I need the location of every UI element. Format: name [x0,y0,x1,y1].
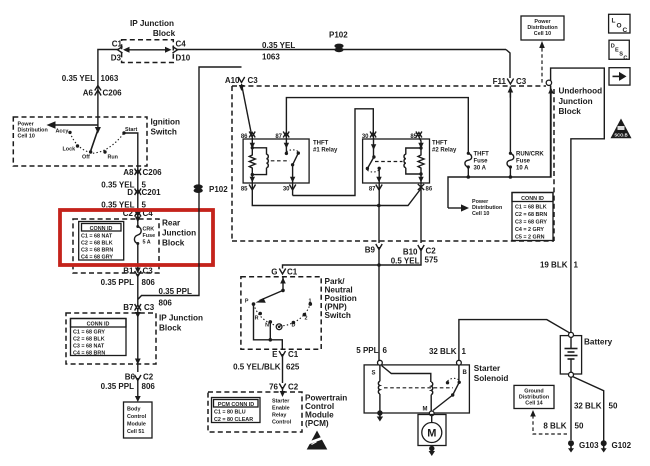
starter solenoid box [364,364,508,413]
svg-text:C1 = 68 GRY: C1 = 68 GRY [73,330,105,336]
svg-text:Lock: Lock [63,147,76,153]
svg-text:575: 575 [425,256,439,265]
PNP detent arc (dotted) [254,304,311,326]
connector D C201 [127,188,161,197]
PNP neutral contact (circled) [276,324,282,330]
svg-text:C2: C2 [426,247,437,256]
starter motor ground [429,446,435,457]
connector G C1 (PNP switch) [271,268,298,277]
svg-text:806: 806 [142,382,156,391]
relay 1 pin 87 [275,132,289,154]
svg-text:P102: P102 [209,185,228,194]
wire battery positive to solenoid B (32 BLK 1) [459,320,570,361]
svg-text:Switch: Switch [325,311,351,320]
svg-text:86: 86 [426,187,433,193]
svg-text:Junction: Junction [559,97,593,106]
label 0.35 PPL 806 (B6) [101,382,156,391]
connector C4 (IP JB top right) [173,40,187,54]
svg-text:87: 87 [275,134,282,140]
THFT fuse 30A [465,152,489,178]
arrow into IP junction block [135,309,141,318]
CRK fuse 5A (in rear junction block) [134,219,155,269]
svg-text:Cell 10: Cell 10 [18,134,35,140]
wire B9 splice to PNP switch G C1 [283,265,380,269]
solenoid M terminal [423,407,435,416]
svg-text:625: 625 [286,363,300,372]
PNP position 1 [309,299,313,306]
svg-text:30 A: 30 A [474,166,487,172]
svg-text:1: 1 [462,347,467,356]
svg-text:C3: C3 [143,267,154,276]
svg-text:1063: 1063 [262,53,280,62]
svg-text:Rear: Rear [162,219,181,228]
ignition switch detent arc (dotted) [70,132,124,153]
solenoid contact from B [433,365,461,410]
svg-text:C3: C3 [248,76,259,85]
svg-text:Start: Start [125,127,137,133]
svg-text:C3: C3 [144,303,155,312]
svg-text:B9: B9 [365,246,376,255]
PCM CONN ID table [212,398,261,424]
svg-text:Fuse: Fuse [516,159,531,165]
connector E C1 [272,350,299,383]
wire from A10/C3 down through P102 to PPL splice [138,67,242,300]
svg-text:IP Junction: IP Junction [130,19,174,28]
svg-text:(PCM): (PCM) [305,419,329,428]
svg-text:Battery: Battery [584,338,613,347]
ignition switch position Accy [56,129,72,135]
svg-text:Starter: Starter [272,399,290,405]
svg-text:Ignition: Ignition [151,118,181,127]
relay 1 pin 85 [241,175,256,196]
PNP position N [265,320,272,328]
underhood junction block CONN ID table [512,193,553,241]
svg-text:Enable: Enable [272,406,290,412]
solenoid hold-in winding (S to ground) [378,365,380,413]
rear junction block dashed box [73,219,196,274]
label 0.35 YEL 1063 (left vertical) [62,74,119,83]
arrow into rear junction block [135,217,141,223]
svg-text:CRK: CRK [143,227,155,233]
underhood junction block dashed outline [232,86,554,241]
powertrain control module dashed box [208,392,347,432]
ground distribution cell 14 box [514,385,554,408]
svg-text:Cell 10: Cell 10 [472,211,489,217]
wire branch to power distribution (arrow left) [47,121,98,129]
svg-text:C3: C3 [516,77,527,86]
THFT #2 relay box [363,139,457,183]
svg-text:87: 87 [369,187,376,193]
svg-text:Cell 10: Cell 10 [534,31,551,37]
svg-text:A6: A6 [83,89,94,98]
svg-text:C1: C1 [288,350,299,359]
solenoid S terminal [372,360,383,376]
svg-text:R: R [255,316,259,322]
body control module box [124,402,153,438]
dashed wire from ground distribution to G103 [530,410,567,434]
svg-text:32 BLK: 32 BLK [429,347,457,356]
arrow out of rear junction block [135,268,141,274]
fuse output bus [448,88,554,209]
PNP position P [245,299,255,306]
solenoid mechanical link (dashed) [384,387,453,389]
arrow to power distribution cell 10 [448,199,502,217]
ignition switch position Start [122,127,137,135]
svg-text:IP Junction: IP Junction [159,314,203,323]
relay 2 switch contacts [366,155,381,172]
ground G103 [568,440,599,452]
relay 2 mechanical link (dashed) [375,161,403,163]
DESC icon [609,40,629,61]
arrow out of IP junction block [135,359,141,365]
svg-text:Block: Block [162,239,185,248]
ground G102 [601,440,632,452]
wire relay1-87 to THFT fuse (top horizontal) [286,98,468,153]
connector A6 C206 [83,86,122,98]
label 8 BLK 50 [543,422,584,431]
svg-text:G103: G103 [579,441,599,450]
connector B9 [365,244,382,265]
wire battery negative to G103 (8 BLK 50) [570,377,572,440]
svg-text:Cell 51: Cell 51 [127,429,144,435]
label 32 BLK 50 [574,402,618,411]
relay 1 pin 30 [283,165,296,196]
svg-text:C2 = 68 BLK: C2 = 68 BLK [73,337,105,343]
relay 1 switch contacts [285,150,300,167]
connector D10 [176,54,191,63]
svg-text:806: 806 [159,299,173,308]
relay 1 mechanical link (dashed) [271,160,290,162]
svg-text:C1: C1 [287,268,298,277]
connector C1 (IP JB top left) [112,40,123,54]
THFT #1 relay box [243,139,338,183]
arrowhead onto ignition switch wiper [95,127,101,134]
ignition switch position Off [82,150,92,160]
red highlight box [60,210,213,265]
svg-text:Block: Block [159,324,182,333]
svg-text:86: 86 [241,134,248,140]
svg-text:C4: C4 [176,40,187,49]
svg-text:0.35 YEL: 0.35 YEL [262,41,295,50]
svg-text:C: C [623,27,628,34]
relay 2 pin 30 [362,132,376,158]
rear junction block CONN ID table [79,222,124,261]
svg-text:C2 = 80 CLEAR: C2 = 80 CLEAR [214,417,253,423]
junction circle at underhood junction block [546,80,551,85]
connector A8 C206 [123,168,162,177]
svg-text:85: 85 [241,187,248,193]
svg-text:Block: Block [153,29,176,38]
svg-text:THFT: THFT [474,152,490,158]
svg-text:0.35 PPL: 0.35 PPL [159,287,192,296]
label 0.5 YEL/BLK 625 [233,363,300,372]
connector P102 (left vertical) [194,184,229,194]
svg-text:C2: C2 [143,373,154,382]
svg-text:C: C [623,56,627,62]
PNP feed wire and arrow into box [280,277,286,293]
svg-text:Control: Control [127,414,147,420]
wire into BCM [135,378,141,402]
svg-text:0.5 YEL/BLK: 0.5 YEL/BLK [233,363,281,372]
svg-text:30: 30 [283,187,290,193]
PNP wiper arm to P [256,290,284,302]
svg-text:C5 = 2 GRN: C5 = 2 GRN [515,235,545,241]
relay 2 pin 85 [410,132,423,149]
label 5 PPL 6 [356,346,387,355]
PNP internal wiring P and N to E [254,304,283,349]
svg-text:N: N [265,323,269,329]
svg-text:5 PPL: 5 PPL [356,346,378,355]
solenoid ground stud (left) [377,410,383,421]
svg-text:P102: P102 [329,31,348,40]
connector F11 C3 [493,77,527,98]
svg-text:Module: Module [127,422,146,428]
svg-text:5 A: 5 A [143,240,151,246]
svg-text:Solenoid: Solenoid [474,374,509,383]
wire through IP junction block [137,316,139,372]
wire relay1-85 to relay2-86 and B9 junction [252,189,421,208]
svg-text:Body: Body [127,407,140,413]
label 0.35 YEL 5 (second) [101,201,146,210]
svg-text:L: L [612,18,616,25]
ignition switch box [13,117,180,166]
ignition switch position Run [103,150,118,160]
svg-text:C2 = 68 BRN: C2 = 68 BRN [515,212,547,218]
underhood junction block solid outline + 19 BLK wire [551,68,605,332]
svg-text:G: G [271,268,277,277]
wire from top into F11 [506,50,510,79]
power distribution cell 10 box (top right) [521,16,564,40]
svg-text:Fuse: Fuse [474,159,489,165]
label 0.35 YEL 1063 (top) [262,41,295,62]
label 0.35 PPL 806 (branch wire) [159,287,192,308]
caution triangle icon (near PCM) [305,431,330,450]
svg-text:M: M [423,407,428,413]
wire B9 splice down to starter solenoid S [378,265,380,361]
svg-text:C1 = 80 BLU: C1 = 80 BLU [214,410,246,416]
svg-text:19 BLK: 19 BLK [540,261,568,270]
svg-text:1063: 1063 [101,74,119,83]
svg-text:Junction: Junction [162,229,196,238]
connector C2 C4 (into rear junction block) [123,209,154,218]
svg-text:Starter: Starter [474,364,501,373]
svg-text:A8: A8 [123,168,134,177]
svg-text:Accy: Accy [56,129,69,135]
svg-text:C1 = 68 BLK: C1 = 68 BLK [515,205,547,211]
svg-text:E: E [272,350,278,359]
IP junction block CONN ID table [71,319,127,357]
IP Junction Block (top) [122,19,176,63]
svg-text:10 A: 10 A [516,166,529,172]
svg-text:CONN ID: CONN ID [90,226,113,232]
svg-text:D: D [127,188,133,197]
svg-text:B: B [463,370,468,376]
svg-text:#1 Relay: #1 Relay [313,148,338,154]
relay 2 pin 86 [418,174,433,243]
svg-text:C4 = 68 BRN: C4 = 68 BRN [73,351,105,357]
svg-text:0.5 YEL: 0.5 YEL [391,257,420,266]
svg-text:C4 = 68 GRY: C4 = 68 GRY [81,255,113,261]
svg-text:1: 1 [574,261,579,270]
svg-text:THFT: THFT [313,141,329,147]
svg-text:Cell 14: Cell 14 [525,401,542,407]
wire A10 into relay 1 pin 86 (diagonal) [239,84,252,137]
svg-text:Fuse: Fuse [143,233,156,239]
connector B1 C3 [123,267,153,306]
PNP position R [255,312,262,322]
svg-text:Block: Block [559,107,582,116]
svg-text:Off: Off [82,155,90,161]
ignition switch position Lock [63,144,80,152]
connector 76 C2 [269,383,299,398]
svg-text:C3 = 68 NAT: C3 = 68 NAT [73,344,105,350]
connector B10 C2 [377,245,436,267]
connector B6 C2 [125,373,154,382]
wire from Start position down [124,133,138,217]
label 32 BLK 1 [429,347,467,356]
PNP position 2 [303,313,308,322]
wire from C1 down to A6/C206 and ignition switch [98,50,119,129]
svg-text:Underhood: Underhood [559,87,603,96]
svg-text:CONN ID: CONN ID [87,322,110,328]
label 0.5 YEL 575 [391,256,439,266]
wire battery negative to G102 (32 BLK 50) [573,377,604,441]
svg-text:Run: Run [108,155,118,161]
svg-text:76: 76 [269,383,278,392]
LOC icon [609,14,630,34]
connector A10 C3 [225,76,258,85]
internal bus arrow inside IP junction block [123,47,172,53]
wire 0.35 YEL 1063 from IP junction block C4 to F11 [176,49,506,51]
svg-text:B6: B6 [125,373,136,382]
svg-text:SCO.B: SCO.B [614,133,627,138]
svg-text:Control: Control [272,420,292,426]
svg-text:C4 = 2 GRY: C4 = 2 GRY [515,227,544,233]
svg-text:D3: D3 [111,54,122,63]
label 0.35 PPL 806 (B1) [101,278,156,287]
svg-text:O: O [617,23,622,30]
svg-text:M: M [427,428,436,440]
park/neutral position switch dashed box [241,277,357,350]
IP junction block (lower) dashed box [66,313,203,364]
wire relay2-30 loop to relay1-30 [293,109,374,196]
connector D3 [111,54,122,63]
svg-text:C206: C206 [143,168,163,177]
wire relay2-87 down to B9 [378,206,380,244]
svg-text:S: S [372,371,376,377]
svg-text:B7: B7 [123,303,134,312]
svg-text:RUN/CRK: RUN/CRK [516,152,544,158]
svg-text:C2 = 68 BLK: C2 = 68 BLK [81,241,113,247]
svg-text:0.35 PPL: 0.35 PPL [101,382,134,391]
svg-text:G102: G102 [612,441,632,450]
power distribution cell 10 reference (ignition) [18,122,48,140]
starter motor [418,415,446,446]
svg-text:C206: C206 [103,89,123,98]
svg-text:50: 50 [575,422,584,431]
svg-text:C201: C201 [142,188,162,197]
ignition switch wiper arm (to Off) [91,131,98,151]
relay 1 pin 86 [241,132,255,149]
svg-text:C3 = 68 BRN: C3 = 68 BRN [81,248,113,254]
svg-text:THFT: THFT [432,141,448,147]
svg-text:Relay: Relay [272,413,286,419]
relay 1 coil (resistor + winding) [249,146,268,176]
svg-text:0.35 PPL: 0.35 PPL [101,278,134,287]
starter enable relay control label [272,399,292,426]
svg-text:806: 806 [142,278,156,287]
svg-text:50: 50 [609,402,618,411]
relay 2 pin 87 [369,168,382,205]
svg-text:#2 Relay: #2 Relay [432,148,457,154]
connector P102 (top) [329,31,348,53]
RUN/CRK fuse 10A [507,91,544,177]
svg-text:C3 = 68 GRY: C3 = 68 GRY [515,220,547,226]
svg-text:0.35 YEL: 0.35 YEL [62,74,95,83]
label 19 BLK 1 [540,261,579,270]
svg-text:8 BLK: 8 BLK [543,422,566,431]
hot-at-all-times triangle icon [611,119,632,139]
connector B7 C3 [123,303,155,312]
solenoid B terminal [457,360,468,376]
svg-text:PCM CONN ID: PCM CONN ID [218,402,254,408]
solenoid pull-in winding (S to M) [382,366,433,412]
svg-text:D10: D10 [176,54,191,63]
label 0.35 YEL 5 [101,181,146,190]
svg-text:B10: B10 [403,248,418,257]
svg-text:2: 2 [305,316,308,322]
svg-text:CONN ID: CONN ID [521,196,544,202]
PNP position D [292,321,296,329]
dashed wire from power distribution box to junction circle [539,41,545,84]
right arrow icon [609,68,630,85]
svg-text:30: 30 [362,134,369,140]
battery [560,332,612,377]
relay 2 coil (winding + resistor) [404,146,424,175]
svg-text:F11: F11 [493,77,507,86]
svg-text:C1 = 68 NAT: C1 = 68 NAT [81,234,113,240]
svg-text:32 BLK: 32 BLK [574,402,602,411]
svg-text:C2: C2 [288,383,299,392]
svg-text:Switch: Switch [151,128,177,137]
svg-text:6: 6 [383,346,388,355]
svg-text:B1: B1 [123,267,134,276]
svg-text:P: P [245,299,249,305]
